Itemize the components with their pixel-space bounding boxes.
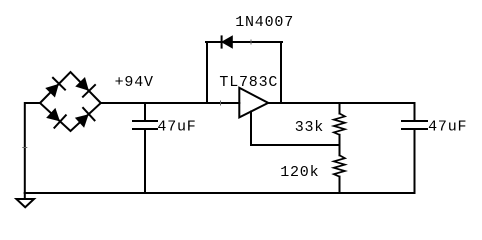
bridge diode top-right — [73, 75, 95, 97]
capacitor C2 plates — [402, 120, 427, 122]
svg-text:1N4007: 1N4007 — [235, 14, 294, 31]
bridge diode top-left — [43, 77, 65, 99]
capacitor C1 plates — [133, 120, 157, 122]
bridge diode bottom-right — [73, 107, 95, 129]
resistor R2 120k zigzag — [334, 155, 345, 176]
wire: feedback line to divider — [251, 144, 340, 146]
svg-text:120k: 120k — [280, 164, 319, 181]
svg-text:TL783C: TL783C — [219, 74, 278, 91]
capacitor C2 47uF right: top lead — [414, 103, 416, 121]
junction tick on input rail — [220, 101, 222, 105]
capacitor C2 bottom lead — [414, 130, 416, 194]
svg-text:47uF: 47uF — [428, 119, 467, 136]
resistor R1 33k: top lead — [339, 103, 341, 114]
wire: 1N4007 top line — [206, 41, 282, 43]
ground — [16, 199, 34, 207]
wire: divider middle lead — [339, 135, 341, 156]
svg-text:+94V: +94V — [115, 74, 154, 91]
bridge diode bottom-left — [44, 106, 66, 128]
svg-text:33k: 33k — [295, 119, 324, 136]
junction tick on 1N4007 line — [250, 40, 252, 44]
resistor R2 bottom lead — [339, 177, 341, 193]
wire: bottom ground rail — [25, 192, 415, 194]
capacitor C1 47uF left: top lead — [144, 103, 146, 121]
op-amp style regulator triangle U1 TL783C — [239, 88, 268, 118]
wire: ADJ pin drop — [250, 112, 252, 146]
junction tick on ground riser — [23, 147, 27, 149]
capacitor C1 bottom lead — [144, 130, 146, 194]
svg-text:47uF: 47uF — [157, 119, 196, 136]
wire: output rail from regulator to right capacitor — [268, 102, 414, 104]
bridge rectifier diamond — [40, 72, 101, 131]
wire: 1N4007 left branch — [206, 42, 208, 103]
wire: top rail from bridge to regulator input — [101, 102, 240, 104]
wire: left vertical riser from bridge to ground — [25, 103, 40, 193]
diode D1 1N4007 — [221, 35, 233, 49]
resistor R1 33k zigzag — [334, 114, 345, 135]
wire: 1N4007 right branch — [280, 42, 282, 103]
